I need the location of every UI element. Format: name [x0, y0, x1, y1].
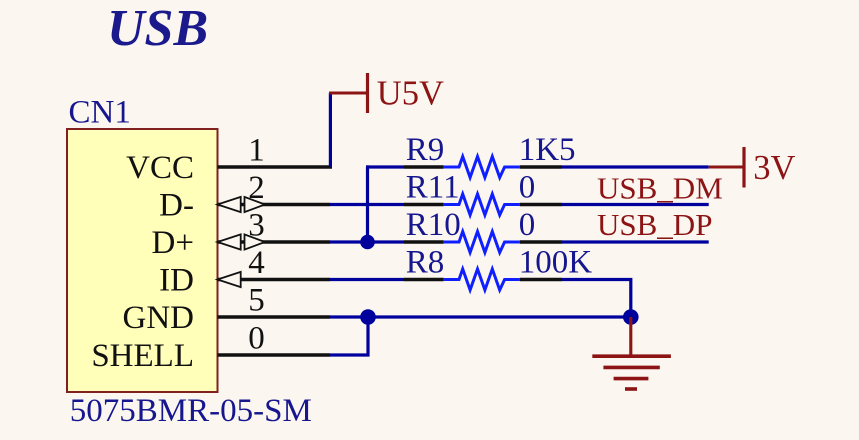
wire row4	[330, 278, 404, 281]
resistor R9	[404, 132, 576, 178]
wire row3 right	[562, 240, 709, 243]
pin 2 arrow right	[245, 197, 265, 212]
svg-text:USB: USB	[107, 0, 208, 57]
connector CN1 body	[67, 129, 218, 392]
svg-text:0: 0	[519, 207, 536, 243]
svg-text:USB_DP: USB_DP	[597, 207, 712, 242]
svg-text:1: 1	[248, 133, 265, 169]
pin 4 line	[218, 278, 331, 281]
svg-text:R9: R9	[406, 132, 445, 168]
svg-text:5: 5	[248, 283, 265, 319]
svg-text:100K: 100K	[519, 245, 593, 281]
wire GND row	[330, 315, 631, 318]
svg-text:VCC: VCC	[126, 150, 194, 186]
svg-text:3: 3	[248, 208, 265, 244]
pin 4 arrow	[218, 272, 241, 287]
svg-text:D+: D+	[152, 225, 194, 261]
svg-text:ID: ID	[159, 263, 194, 299]
node junction ground	[623, 309, 639, 325]
svg-text:R11: R11	[406, 170, 460, 206]
svg-text:1K5: 1K5	[519, 132, 576, 168]
svg-text:0: 0	[248, 321, 265, 357]
svg-text:R8: R8	[406, 245, 445, 281]
pin 5 line	[218, 315, 331, 318]
wire row2	[330, 203, 404, 206]
svg-text:4: 4	[248, 245, 265, 281]
wire row4 right to ground	[562, 280, 631, 318]
node junction D+	[360, 235, 375, 250]
power port U5V	[329, 92, 368, 95]
svg-text:3V: 3V	[753, 149, 795, 187]
svg-text:U5V: U5V	[377, 74, 444, 112]
svg-text:2: 2	[248, 170, 265, 206]
power port 3V	[709, 166, 744, 169]
wire row1 right	[562, 165, 709, 168]
wire R9 left drop to D+	[366, 167, 368, 242]
pin 2 line	[218, 203, 331, 206]
pin 3 line	[218, 240, 331, 243]
wire VCC vertical to U5V	[329, 93, 332, 167]
resistor R8	[404, 245, 592, 291]
svg-text:5075BMR-05-SM: 5075BMR-05-SM	[70, 393, 312, 429]
pin 1 line	[218, 165, 333, 168]
svg-text:D-: D-	[159, 188, 194, 224]
wire row3	[330, 240, 404, 243]
resistor R11	[404, 170, 562, 216]
wire row1 to R9	[366, 165, 404, 168]
svg-text:R10: R10	[406, 207, 461, 243]
pin 3 arrow right	[245, 234, 265, 249]
node junction GND/SHELL	[360, 309, 376, 325]
pin 3 arrow left	[218, 234, 241, 249]
svg-text:GND: GND	[123, 300, 195, 336]
svg-text:0: 0	[519, 170, 536, 206]
pin 0 line	[218, 353, 331, 356]
wire SHELL to GND	[330, 317, 368, 355]
svg-text:CN1: CN1	[69, 95, 131, 131]
wire row2 right	[562, 203, 709, 206]
pin 2 arrow left	[218, 197, 241, 212]
svg-text:USB_DM: USB_DM	[597, 171, 723, 206]
ground symbol	[592, 317, 671, 389]
svg-text:SHELL: SHELL	[91, 338, 194, 374]
resistor R10	[404, 207, 562, 253]
